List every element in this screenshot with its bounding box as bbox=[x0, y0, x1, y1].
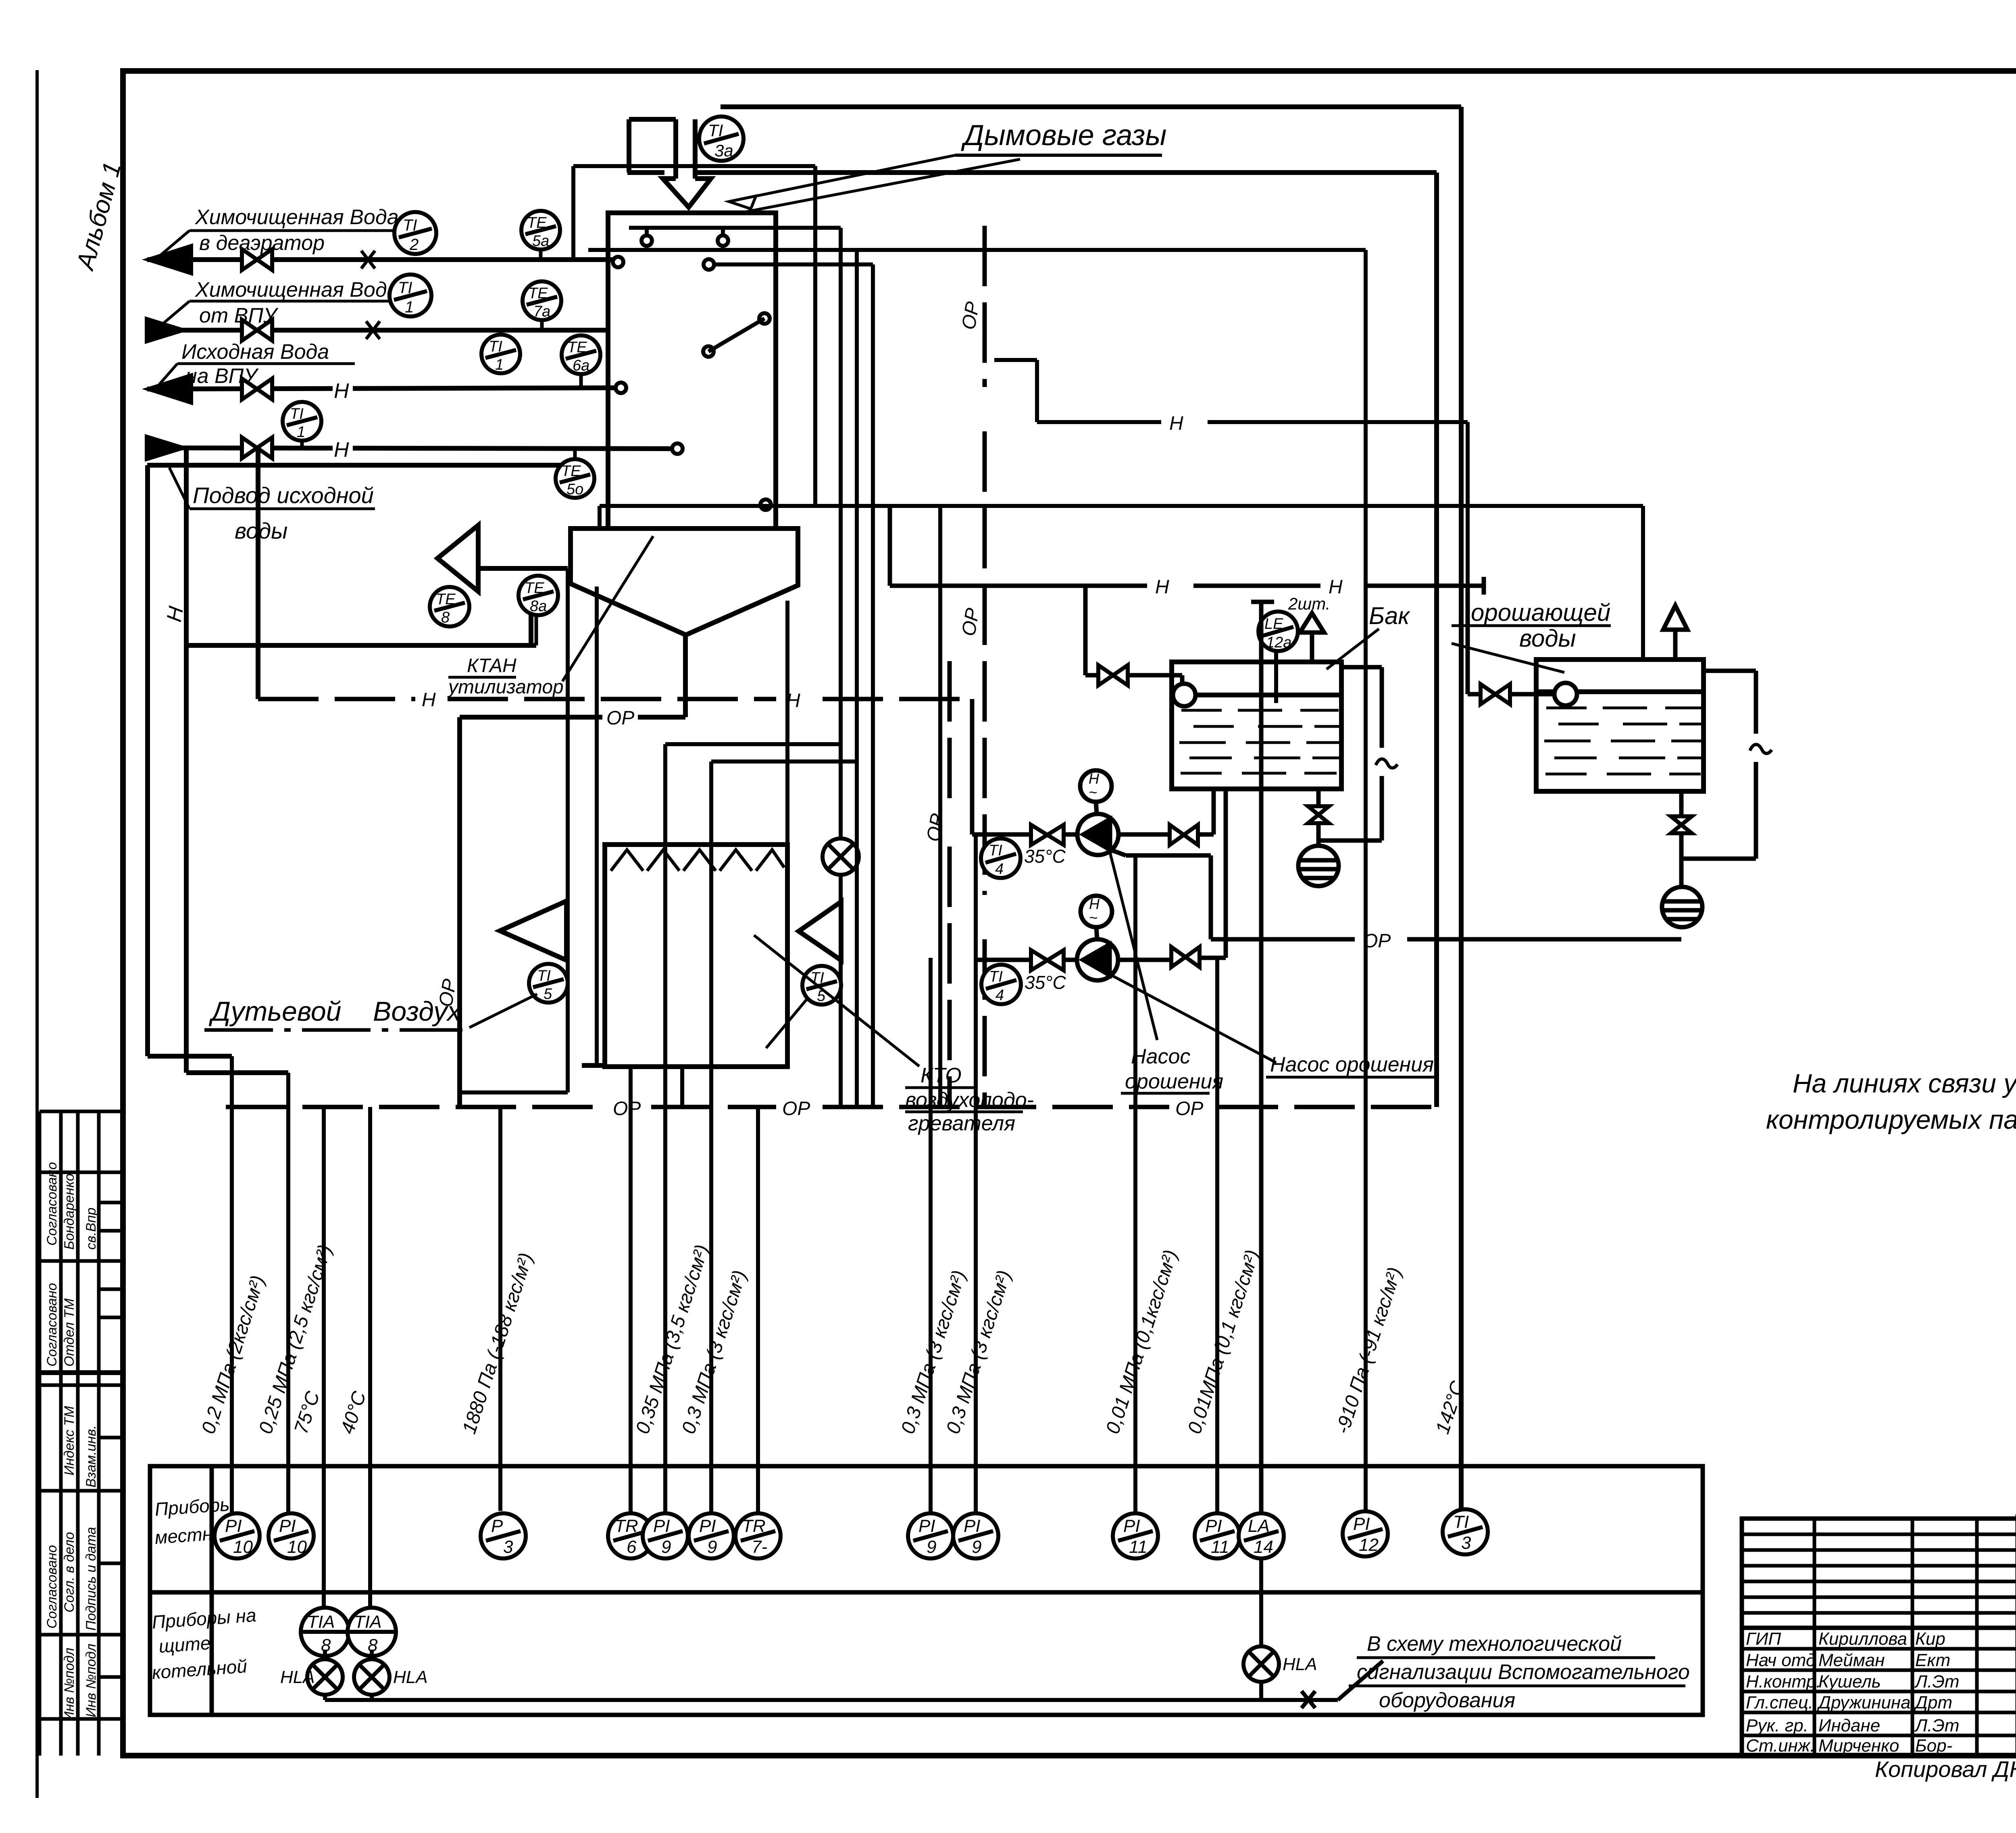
KTO box bbox=[605, 845, 787, 1067]
svg-text:Химочищенная Вода: Химочищенная Вода bbox=[195, 206, 399, 229]
svg-text:1: 1 bbox=[495, 356, 504, 373]
signal risers from schematic to bubbles bbox=[232, 834, 1217, 1608]
valve L1 bbox=[242, 249, 272, 270]
svg-text:5о: 5о bbox=[566, 481, 583, 498]
misc verticals bbox=[460, 568, 597, 1092]
svg-text:PI: PI bbox=[279, 1516, 296, 1536]
svg-text:8: 8 bbox=[441, 609, 450, 626]
lamp HLA a bbox=[280, 1659, 343, 1695]
bubble TI-1 bbox=[389, 275, 431, 316]
svg-text:На линиях связи указаны: На линиях связи указаны предельные значе… bbox=[1793, 1068, 2016, 1098]
svg-text:в деаэратор: в деаэратор bbox=[199, 231, 325, 255]
arrow L1 left bbox=[147, 246, 192, 274]
tank1 water hatch bbox=[1179, 710, 1339, 773]
bubble P-3 bbox=[481, 1513, 526, 1558]
svg-text:4: 4 bbox=[996, 987, 1004, 1004]
svg-text:сигнализации Вспомогательного: сигнализации Вспомогательного bbox=[1357, 1660, 1690, 1684]
svg-text:Индане: Индане bbox=[1818, 1716, 1880, 1735]
svg-text:контролируемых параметро: контролируемых параметров. bbox=[1766, 1105, 2016, 1134]
svg-text:PI: PI bbox=[699, 1516, 716, 1536]
svg-text:Мирченко: Мирченко bbox=[1818, 1736, 1899, 1756]
valve L4 bbox=[242, 437, 272, 458]
svg-text:1: 1 bbox=[405, 298, 414, 316]
internal verticals / taps through heater bbox=[665, 744, 857, 1513]
air arrow right bbox=[799, 902, 841, 960]
pump labels bbox=[1125, 1045, 1434, 1093]
svg-text:LE: LE bbox=[1264, 616, 1283, 632]
flue duct top wall bbox=[721, 104, 1461, 109]
svg-text:Л.Эт: Л.Эт bbox=[1914, 1716, 1960, 1735]
L3 tap circle bbox=[616, 383, 626, 393]
pump 1 bbox=[1077, 770, 1118, 855]
TE-6a stem bbox=[579, 374, 583, 388]
line L1 chem.water to deaerator bbox=[147, 257, 613, 262]
drain OP run bbox=[460, 715, 602, 720]
svg-text:Согласовано: Согласовано bbox=[44, 1162, 60, 1246]
svg-text:9: 9 bbox=[707, 1537, 717, 1557]
bubble TR-7 bbox=[735, 1513, 781, 1558]
duct right downcomer outer bbox=[1459, 107, 1464, 1509]
svg-text:ОР: ОР bbox=[782, 1098, 810, 1119]
svg-text:3: 3 bbox=[1461, 1533, 1471, 1553]
bubble PI-9 c bbox=[908, 1513, 953, 1558]
svg-text:~: ~ bbox=[1089, 784, 1097, 801]
svg-text:воды: воды bbox=[235, 518, 287, 543]
lamp bus wires bbox=[325, 1558, 1383, 1708]
svg-text:TE: TE bbox=[528, 285, 548, 302]
svg-text:Мейман: Мейман bbox=[1818, 1650, 1885, 1670]
bubble PI-10 b bbox=[269, 1513, 314, 1558]
bubble TI-4 b bbox=[981, 965, 1021, 1004]
svg-text:HLA: HLA bbox=[393, 1667, 428, 1687]
pump1 piping bbox=[972, 789, 1214, 939]
svg-text:Дружинина: Дружинина bbox=[1816, 1693, 1911, 1712]
line L3 raw water to VPU bbox=[147, 388, 616, 389]
svg-text:12а: 12а bbox=[1266, 634, 1291, 651]
bubble TI-2 bbox=[394, 212, 436, 254]
pump2 piping bbox=[976, 789, 1226, 970]
svg-text:TE: TE bbox=[567, 339, 587, 356]
KTAN right-side drop bbox=[785, 601, 789, 845]
KTAN outlet arrow to deaerator bbox=[186, 525, 568, 645]
svg-text:PI: PI bbox=[1123, 1516, 1140, 1536]
bubble PI-12 bbox=[1343, 1511, 1388, 1556]
slanted tap bbox=[708, 318, 764, 352]
L4 tap circle bbox=[672, 443, 683, 454]
riser from return line bbox=[145, 465, 150, 1056]
gas inlet arrow bbox=[673, 119, 678, 179]
svg-text:8а: 8а bbox=[530, 598, 547, 615]
tank1 drain seal bbox=[1298, 789, 1339, 886]
svg-text:В схему технологической: В схему технологической bbox=[1367, 1632, 1622, 1656]
svg-text:КТАН: КТАН bbox=[467, 655, 516, 676]
OP header line y2746 bbox=[226, 1105, 607, 1109]
valve L2 bbox=[242, 320, 272, 341]
bubble TE-6a bbox=[562, 335, 600, 374]
svg-text:Инв №подл: Инв №подл bbox=[83, 1644, 99, 1717]
OP vertical dash x2355 bbox=[948, 661, 952, 802]
svg-text:HLA: HLA bbox=[280, 1667, 315, 1687]
TE-7a stem bbox=[540, 320, 544, 330]
svg-text:TI: TI bbox=[398, 279, 412, 297]
arrow L3 left bbox=[147, 375, 192, 403]
left risers down bbox=[148, 448, 288, 1073]
arrow L2 right bbox=[146, 318, 184, 342]
svg-text:ОР: ОР bbox=[1175, 1098, 1203, 1119]
bubble TI-5 left bbox=[529, 964, 568, 1003]
svg-text:11: 11 bbox=[1211, 1537, 1229, 1557]
svg-text:Н: Н bbox=[334, 438, 349, 462]
bubble LE-12a bbox=[1258, 612, 1298, 651]
bubble PI-9 d bbox=[953, 1513, 998, 1558]
collector long line bbox=[600, 504, 1643, 508]
line L4 raw water supply bbox=[153, 448, 673, 449]
note text right middle bbox=[1766, 1068, 2016, 1134]
svg-text:Взам.инв.: Взам.инв. bbox=[83, 1425, 99, 1488]
svg-text:2: 2 bbox=[409, 236, 419, 254]
svg-text:Согласовано: Согласовано bbox=[44, 1545, 60, 1629]
svg-text:Отдел ТМ: Отдел ТМ bbox=[62, 1298, 77, 1367]
svg-text:Н: Н bbox=[422, 689, 436, 711]
bubble PI-9 a bbox=[643, 1513, 688, 1558]
KTO label bbox=[905, 1064, 1034, 1135]
bubble TE-5a bbox=[521, 211, 560, 250]
tank2 water hatch bbox=[1544, 708, 1702, 774]
tap line top bbox=[629, 226, 841, 230]
bubble TE-8a bbox=[519, 576, 558, 615]
bubble PI-11 a bbox=[1113, 1513, 1158, 1558]
svg-text:ОР: ОР bbox=[1363, 930, 1391, 952]
svg-text:TR: TR bbox=[614, 1516, 638, 1536]
svg-text:Н: Н bbox=[1169, 413, 1183, 434]
flue duct bottom wall bbox=[627, 170, 664, 175]
svg-text:Н: Н bbox=[1329, 576, 1343, 598]
svg-text:Подпись и дата: Подпись и дата bbox=[83, 1527, 99, 1631]
svg-text:TE: TE bbox=[525, 580, 544, 597]
svg-text:3: 3 bbox=[503, 1537, 513, 1557]
tank2 float valve feed bbox=[1468, 586, 1577, 705]
svg-text:Согласовано: Согласовано bbox=[44, 1283, 60, 1367]
hopper drain bbox=[683, 635, 688, 717]
svg-text:воды: воды bbox=[1519, 625, 1576, 652]
tank2 drain seal bbox=[1662, 791, 1702, 927]
air arrow left bbox=[500, 901, 566, 960]
svg-text:Бак: Бак bbox=[1369, 602, 1410, 629]
bubble TI-5 right bbox=[802, 966, 841, 1005]
svg-text:TI: TI bbox=[537, 967, 551, 984]
tank1 vent bbox=[1300, 613, 1324, 662]
svg-text:Н: Н bbox=[334, 379, 349, 403]
svg-text:Индекс ТМ: Индекс ТМ bbox=[62, 1406, 77, 1475]
svg-text:TIA: TIA bbox=[354, 1612, 381, 1632]
svg-text:Дымовые газы: Дымовые газы bbox=[961, 119, 1166, 152]
svg-text:1: 1 bbox=[297, 424, 305, 441]
collector verticals bbox=[813, 166, 817, 506]
arrow L4 right bbox=[146, 436, 184, 460]
svg-text:утилизатор: утилизатор bbox=[447, 676, 564, 698]
svg-text:св.Впр: св.Впр bbox=[83, 1208, 99, 1250]
left trim line bbox=[35, 70, 39, 1798]
svg-text:КТО: КТО bbox=[921, 1064, 962, 1087]
bubble TR-6 bbox=[608, 1513, 653, 1558]
tank1 overflow loop bbox=[1318, 667, 1397, 841]
svg-text:Дутьевой: Дутьевой bbox=[208, 996, 342, 1027]
svg-text:PI: PI bbox=[1353, 1514, 1370, 1534]
duct right downcomer inner bbox=[1434, 173, 1439, 1107]
svg-text:Копировал ДК: Копировал ДК bbox=[1875, 1756, 2016, 1782]
lamp HLA b bbox=[354, 1659, 428, 1695]
hatch carets bbox=[611, 850, 784, 871]
upper H run bbox=[994, 358, 1037, 362]
KTAN column body bbox=[608, 213, 776, 528]
svg-text:P: P bbox=[491, 1516, 503, 1536]
air axis dash-dot bbox=[204, 1028, 462, 1032]
svg-text:от ВПУ: от ВПУ bbox=[199, 304, 279, 327]
bubble LA-14 bbox=[1239, 1513, 1284, 1558]
tank 2 bbox=[1536, 660, 1704, 791]
LA dip tube bbox=[1251, 602, 1274, 1513]
svg-text:PI: PI bbox=[964, 1516, 981, 1536]
svg-text:TI: TI bbox=[989, 968, 1003, 985]
H mark L3 bbox=[333, 379, 353, 403]
svg-text:5а: 5а bbox=[532, 233, 549, 250]
svg-text:Н.контр.: Н.контр. bbox=[1746, 1672, 1821, 1692]
bubble TI-1b bbox=[481, 335, 520, 373]
svg-text:орошающей: орошающей bbox=[1471, 599, 1610, 626]
svg-text:Химочищенная Вода: Химочищенная Вода bbox=[195, 278, 399, 302]
svg-text:Рук. гр.: Рук. гр. bbox=[1746, 1716, 1808, 1735]
bubble TI-4 a bbox=[981, 838, 1020, 878]
svg-text:7а: 7а bbox=[533, 303, 550, 320]
svg-text:Согл. в дело: Согл. в дело bbox=[62, 1532, 77, 1612]
svg-text:щите: щите bbox=[158, 1632, 211, 1657]
bubble TIA-8 b bbox=[348, 1608, 396, 1656]
svg-text:Ст.инж.: Ст.инж. bbox=[1746, 1736, 1815, 1756]
svg-text:5: 5 bbox=[544, 986, 552, 1003]
svg-text:TE: TE bbox=[527, 214, 547, 231]
svg-text:Насос орошения: Насос орошения bbox=[1270, 1053, 1434, 1076]
tank2 vent bbox=[1663, 605, 1687, 660]
svg-text:Н: Н bbox=[1155, 576, 1169, 598]
bubble PI-9 b bbox=[689, 1513, 734, 1558]
svg-text:TI: TI bbox=[989, 842, 1002, 859]
collector drop from 1255 line bbox=[938, 506, 942, 1107]
OP line y2330 bbox=[1211, 937, 1355, 942]
svg-text:35°С: 35°С bbox=[1025, 972, 1066, 993]
bubble TE-7a bbox=[523, 281, 561, 320]
svg-text:Кир: Кир bbox=[1915, 1629, 1945, 1649]
svg-text:LA: LA bbox=[1248, 1516, 1270, 1536]
svg-text:Кириллова: Кириллова bbox=[1818, 1629, 1907, 1649]
svg-text:11: 11 bbox=[1129, 1537, 1148, 1557]
instrument bubbles row 1 bbox=[215, 1509, 1488, 1558]
svg-text:35°С: 35°С bbox=[1024, 846, 1066, 867]
svg-text:ГИП: ГИП bbox=[1746, 1629, 1781, 1649]
svg-text:гревателя: гревателя bbox=[908, 1112, 1015, 1135]
labels of flow lines bbox=[181, 206, 399, 388]
bubble TE-5o bbox=[556, 459, 594, 498]
KTAN hopper bbox=[571, 528, 798, 635]
svg-text:оборудования: оборудования bbox=[1379, 1689, 1515, 1712]
svg-text:ОР: ОР bbox=[606, 707, 634, 729]
svg-text:4: 4 bbox=[995, 861, 1004, 878]
bubble PI-10 a bbox=[215, 1513, 260, 1558]
svg-text:6: 6 bbox=[627, 1537, 637, 1557]
riser from L4 bbox=[184, 448, 189, 1073]
svg-text:орошения: орошения bbox=[1125, 1070, 1223, 1093]
svg-text:PI: PI bbox=[653, 1516, 670, 1536]
riser L4 to H header bbox=[256, 448, 260, 699]
H header line y1734 bbox=[258, 697, 415, 701]
svg-text:Насос: Насос bbox=[1131, 1045, 1190, 1068]
svg-text:HLA: HLA bbox=[1283, 1654, 1317, 1674]
svg-text:Бор-: Бор- bbox=[1915, 1736, 1952, 1756]
tap line mid bbox=[588, 248, 1366, 252]
riser to PI-12 bbox=[1364, 250, 1368, 1511]
valve L3 bbox=[242, 379, 272, 399]
tank1 float valve feed bbox=[1085, 586, 1195, 706]
tank2 overflow loop bbox=[1683, 671, 1772, 859]
svg-text:TI: TI bbox=[290, 406, 304, 422]
svg-text:PI: PI bbox=[225, 1516, 242, 1536]
svg-text:~: ~ bbox=[1089, 909, 1098, 926]
note: to tech signaling scheme bbox=[1357, 1632, 1690, 1712]
svg-text:PI: PI bbox=[1205, 1516, 1222, 1536]
svg-text:Исходная Вода: Исходная Вода bbox=[181, 340, 329, 364]
svg-text:Нач отд: Нач отд bbox=[1746, 1650, 1816, 1670]
svg-text:Кушель: Кушель bbox=[1818, 1672, 1881, 1692]
bubble TI on L4 bbox=[283, 402, 321, 441]
bubble PI-11 b bbox=[1195, 1513, 1240, 1558]
svg-text:14: 14 bbox=[1254, 1537, 1273, 1557]
svg-text:TI: TI bbox=[1453, 1512, 1469, 1532]
svg-text:PI: PI bbox=[918, 1516, 935, 1536]
svg-text:3а: 3а bbox=[714, 141, 733, 160]
svg-text:10: 10 bbox=[287, 1537, 307, 1557]
rotated limit-value labels bbox=[198, 1242, 1469, 1436]
svg-text:TIA: TIA bbox=[307, 1612, 335, 1632]
svg-text:Дрт: Дрт bbox=[1913, 1693, 1952, 1712]
line L2 chem.water from VPU bbox=[153, 328, 608, 333]
TE-5o stem bbox=[573, 449, 577, 459]
svg-text:TI: TI bbox=[708, 121, 723, 140]
svg-text:на ВПУ: на ВПУ bbox=[185, 364, 259, 388]
svg-text:TI: TI bbox=[489, 338, 502, 355]
svg-text:9: 9 bbox=[927, 1537, 936, 1557]
svg-text:Инв №подл: Инв №подл bbox=[62, 1648, 77, 1721]
svg-text:воздухоподо-: воздухоподо- bbox=[905, 1088, 1034, 1112]
tank 1 bbox=[1172, 662, 1341, 789]
OP vertical dash x2442 bbox=[983, 226, 987, 387]
svg-text:10: 10 bbox=[233, 1537, 253, 1557]
svg-text:TE: TE bbox=[561, 463, 581, 480]
svg-text:TI: TI bbox=[403, 216, 417, 234]
X mark L1 bbox=[361, 251, 375, 268]
bubble TI-3a bbox=[699, 117, 744, 161]
svg-text:TR: TR bbox=[742, 1516, 766, 1536]
X mark L2 bbox=[366, 321, 380, 339]
H feed line to tanks bbox=[890, 506, 1484, 598]
svg-text:ОР: ОР bbox=[613, 1098, 641, 1119]
H mark L4 bbox=[333, 438, 353, 462]
pump suction riser bbox=[970, 699, 975, 834]
L1 tap circle bbox=[613, 257, 623, 267]
TE-5a stem bbox=[539, 250, 543, 260]
svg-text:Л.Эт: Л.Эт bbox=[1914, 1672, 1960, 1692]
bubble TI-3 bbox=[1443, 1509, 1488, 1554]
svg-text:TE: TE bbox=[436, 591, 456, 608]
tap at 656 bbox=[714, 262, 873, 266]
svg-text:7-: 7- bbox=[752, 1537, 767, 1557]
bubble TE-8 bbox=[430, 587, 469, 626]
svg-text:6а: 6а bbox=[573, 357, 589, 374]
svg-text:Ект: Ект bbox=[1915, 1650, 1950, 1670]
lamp HLA c bbox=[1243, 1646, 1317, 1682]
return line under L4 bbox=[147, 463, 564, 468]
instrument bubbles row 2 bbox=[280, 1608, 1317, 1695]
bubble TIA-8 a bbox=[301, 1608, 349, 1656]
KTAN label bbox=[447, 655, 564, 698]
svg-text:9: 9 bbox=[972, 1537, 981, 1557]
svg-text:Бондаренко: Бондаренко bbox=[62, 1173, 77, 1250]
svg-text:2шт.: 2шт. bbox=[1288, 594, 1330, 613]
svg-text:Гл.спец.: Гл.спец. bbox=[1746, 1693, 1813, 1712]
pump 2 bbox=[1077, 896, 1118, 980]
svg-text:9: 9 bbox=[661, 1537, 671, 1557]
svg-text:Подвод исходной: Подвод исходной bbox=[193, 483, 374, 508]
svg-text:Воздух: Воздух bbox=[373, 996, 462, 1027]
svg-text:12: 12 bbox=[1359, 1535, 1379, 1555]
svg-text:Н: Н bbox=[786, 690, 800, 712]
